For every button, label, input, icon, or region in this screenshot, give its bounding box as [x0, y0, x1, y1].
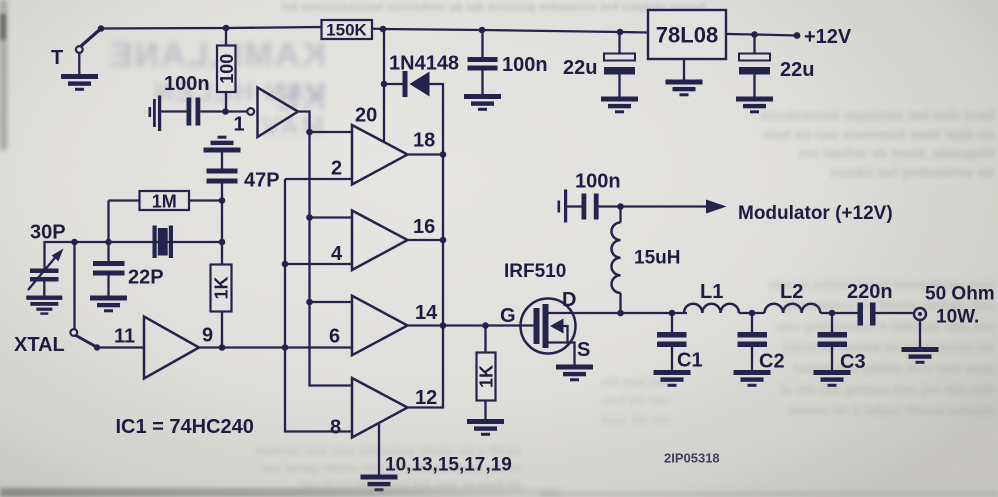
svg-text:S: S	[577, 339, 590, 361]
svg-text:IRF510: IRF510	[504, 261, 566, 282]
wire 1M left branch	[107, 201, 109, 243]
wire choke top lead	[619, 207, 621, 223]
ghost center lower small block	[520, 372, 670, 429]
op-amp U1a enable gate triangle (IC1 pin 1)	[258, 88, 299, 138]
inductor L2 coil	[765, 304, 821, 313]
wire switch to tank row	[73, 242, 75, 329]
node 1 junction dot	[222, 108, 229, 115]
ghost top edge text line	[235, 0, 705, 15]
op-amp U1a enable gate bubble	[247, 108, 254, 115]
svg-text:+12V: +12V	[804, 26, 852, 48]
wire 22u output to ground	[753, 75, 755, 97]
op-amp U1f oscillator inverter triangle (pins 11/9)	[144, 317, 199, 379]
svg-text:10,13,15,17,19: 10,13,15,17,19	[385, 455, 512, 476]
svg-text:50 Ohm: 50 Ohm	[925, 284, 995, 305]
ghost right mid paragraph	[690, 274, 994, 421]
wire buffer2 output	[408, 239, 444, 241]
output terminal circle	[914, 308, 926, 320]
wire capacitor 100n to node 1	[200, 110, 225, 112]
node enable bus to buffer3	[306, 299, 313, 306]
svg-text:22u: 22u	[563, 57, 597, 79]
svg-text:1N4148: 1N4148	[389, 53, 459, 75]
svg-text:20: 20	[355, 105, 377, 127]
node input bus buffer2	[282, 261, 289, 268]
svg-text:22P: 22P	[128, 267, 164, 289]
svg-text:C1: C1	[677, 350, 703, 372]
terminal bars modulator input	[558, 201, 561, 213]
node rail / 100n decoupling	[479, 27, 486, 34]
wire pin20 vertical	[383, 29, 385, 142]
ground under C3	[814, 370, 851, 387]
svg-text:Modulator (+12V): Modulator (+12V)	[738, 203, 893, 224]
svg-text:L1: L1	[700, 281, 723, 303]
capacitor 100n decoupling plates	[468, 57, 498, 62]
ground under switch T	[61, 74, 98, 91]
crystal X1 plates and body	[153, 226, 157, 259]
svg-text:1M: 1M	[152, 192, 177, 212]
node rail / pin20 branch	[380, 26, 387, 33]
resistor 1K oscillator	[211, 265, 232, 312]
svg-text:C2: C2	[759, 351, 785, 373]
wire enable stub buffer1	[310, 131, 353, 133]
wire 1K gate to ground	[484, 401, 486, 420]
node pin9	[219, 344, 226, 351]
wire pin14 to gate	[443, 324, 534, 326]
svg-text:L2: L2	[780, 281, 803, 303]
wire buffer3 output	[408, 324, 444, 326]
node rail / 22u output cap	[751, 31, 758, 38]
buffer U1e triangle (pins 8/12)	[352, 378, 408, 438]
wire buffer4 output to bus corner	[408, 155, 444, 408]
modulator arrowhead	[706, 200, 727, 214]
node enable bus to buffer2	[306, 214, 313, 221]
capacitor C2 plates	[738, 332, 768, 338]
capacitor 22u input electrolytic plates	[604, 54, 635, 61]
svg-text:78L08: 78L08	[656, 23, 718, 48]
svg-text:2: 2	[331, 158, 342, 180]
ground under source	[556, 365, 593, 382]
node C2	[749, 310, 756, 317]
ground under 1K gate	[467, 419, 504, 436]
svg-text:T: T	[51, 47, 63, 69]
node C1	[669, 310, 676, 317]
wire C3 top lead	[831, 313, 833, 332]
wire terminal to 100n modulator	[566, 205, 582, 207]
transistor Q1 body-source link	[564, 326, 568, 343]
ghost bottom left lines	[92, 442, 522, 493]
svg-text:1K: 1K	[477, 365, 497, 388]
svg-text:2IP05318: 2IP05318	[664, 451, 720, 466]
transistor Q1 channel bar	[543, 304, 549, 348]
svg-text:1K: 1K	[212, 276, 232, 299]
svg-text:G: G	[500, 305, 516, 327]
node tank row switch branch	[71, 239, 78, 246]
svg-text:30P: 30P	[30, 222, 66, 244]
capacitor 47P plates	[207, 169, 238, 174]
wire enable bus B	[298, 112, 352, 386]
capacitor 22P plates	[93, 261, 125, 266]
capacitor C1 plates	[657, 332, 687, 338]
wire resistor 100 to node 1	[225, 92, 227, 112]
switch XTAL contact circle	[70, 329, 77, 336]
svg-text:100n: 100n	[575, 171, 621, 193]
buffer U1b triangle (pins 2/18)	[352, 125, 408, 185]
inductor 15uH coil	[612, 223, 621, 293]
input terminal bars (key input)	[149, 107, 152, 117]
node tank row 22P/1M branch	[105, 239, 112, 246]
buffer U1d triangle (pins 6/14)	[352, 296, 408, 356]
wire pin9 output line	[222, 346, 352, 348]
capacitor 100n (key coupling) plates	[187, 98, 192, 126]
svg-text:16: 16	[413, 216, 435, 238]
regulator 78L08	[648, 10, 726, 59]
wire C2 top lead	[751, 313, 753, 332]
node output bus pin16	[440, 237, 447, 244]
diode 1N4148 triangle	[410, 72, 430, 97]
wire tank row horizontal	[45, 242, 223, 269]
wire oscillator output to node 9	[199, 346, 222, 348]
node rail / 22u input cap	[617, 29, 624, 36]
wire buffer4 hypotenuse to ground	[378, 424, 380, 475]
wire C1 to ground	[671, 347, 673, 370]
ground under output terminal	[902, 347, 939, 364]
capacitor 100n modulator plates	[582, 194, 587, 220]
capacitor 30P trimmer arrow	[28, 257, 56, 291]
switch T moving-contact dot	[98, 25, 105, 32]
capacitor 220n plates	[858, 303, 864, 326]
svg-text:10W.: 10W.	[936, 307, 979, 328]
resistor 150K (in rail)	[322, 20, 373, 39]
wire 22P branch	[107, 242, 109, 261]
capacitor 22u output electrolytic plates	[739, 54, 770, 61]
capacitor C3 plates	[818, 332, 848, 338]
wire node1 to enable gate bubble	[226, 110, 248, 112]
svg-text:1: 1	[234, 114, 245, 136]
ground under 22u input	[601, 97, 638, 114]
wire enable stub buffer2	[310, 216, 353, 218]
ghost right upper paragraph	[694, 106, 994, 182]
wire C2 to ground	[751, 347, 753, 370]
ground above 47P (inverted)	[204, 136, 241, 153]
wire diode anode lead	[384, 83, 403, 85]
wire input bus A from pin 9	[285, 179, 352, 432]
ground under 100n decoupling	[464, 94, 501, 111]
node tank row right junction	[219, 239, 226, 246]
svg-text:18: 18	[413, 130, 435, 152]
inductor L1 coil	[684, 304, 739, 313]
node modulator / choke	[617, 203, 624, 210]
wire oscillator input	[97, 346, 144, 348]
resistor 1M	[140, 191, 190, 210]
node C3	[829, 310, 836, 317]
wire rail to resistor 100	[225, 28, 227, 46]
ground under buffer4 (pins 10,13,15,17,19)	[361, 475, 398, 492]
wire L1 to C2 node	[739, 312, 765, 314]
node drain / choke	[617, 310, 624, 317]
node 1M/47P junction	[219, 197, 226, 204]
wire +12V top rail	[101, 27, 797, 36]
resistor 100	[217, 46, 236, 93]
ground under 78L08	[666, 80, 703, 97]
svg-text:15uH: 15uH	[634, 248, 680, 269]
node output bus pin18	[440, 151, 447, 158]
svg-text:8: 8	[330, 417, 341, 439]
wire L2 to 220n	[820, 312, 857, 314]
wire rail to 100n decoupling	[481, 30, 483, 57]
ground under 22P	[90, 296, 127, 313]
wire drain node to LPF	[621, 312, 688, 314]
node gate 1K pulldown	[482, 322, 489, 329]
svg-text:D: D	[562, 289, 576, 311]
svg-text:C3: C3	[840, 351, 866, 373]
node input bus pin9 line	[282, 344, 289, 351]
wire enable stub buffer3	[310, 301, 353, 303]
wire feedback vertical	[221, 153, 223, 348]
switch XTAL arm	[76, 336, 97, 348]
wire buffer1 output	[408, 153, 444, 155]
wire 220n to output terminal	[876, 312, 914, 314]
svg-text:6: 6	[329, 326, 340, 348]
wire rail to 22u input	[618, 32, 620, 54]
diode 1N4148 cathode bar	[403, 71, 408, 97]
capacitor 30P trimmer plates	[30, 269, 59, 274]
switch XTAL arm end dot	[94, 344, 100, 350]
transistor Q1 gate bar	[534, 308, 540, 344]
wire modulator arrow line	[621, 205, 707, 207]
wire C1 top lead	[671, 313, 673, 332]
ground under C1	[654, 370, 691, 387]
svg-text:100n: 100n	[502, 54, 548, 76]
terminal dot +12V	[794, 32, 801, 39]
wire 78L08 to ground	[683, 59, 685, 80]
node output bus pin14	[440, 322, 447, 329]
node enable bus to buffer1	[306, 129, 313, 136]
svg-text:IC1 = 74HC240: IC1 = 74HC240	[116, 416, 254, 438]
svg-text:100: 100	[217, 54, 237, 84]
resistor 1K gate	[477, 353, 496, 401]
wire drain	[549, 312, 621, 314]
svg-text:4: 4	[331, 243, 343, 265]
wire 22P to ground	[107, 276, 109, 296]
svg-text:150K: 150K	[326, 21, 367, 40]
wire choke bottom lead	[619, 293, 621, 313]
transistor Q1 IRF510 body circle	[521, 299, 576, 354]
wire terminal to capacitor 100n C-key	[160, 110, 187, 112]
svg-text:47P: 47P	[244, 170, 280, 192]
wire output terminal to ground	[919, 320, 921, 347]
wire diode to output bus	[430, 84, 444, 155]
ghost bleed-through headline line 1	[68, 34, 326, 119]
wire 22u input to ground	[618, 75, 620, 97]
ground under 22u output	[736, 97, 773, 114]
wire source	[549, 343, 575, 365]
wire 100n modulator to node	[599, 205, 621, 207]
wire gate node to 1K	[484, 326, 486, 353]
svg-text:22u: 22u	[780, 59, 814, 81]
wire switch T to ground	[78, 53, 80, 74]
wire C3 to ground	[831, 347, 833, 370]
switch T arm	[81, 29, 102, 47]
wire 100n decoupling to ground	[481, 71, 483, 95]
wire rail to 22u output	[753, 35, 755, 54]
wire 30P to ground	[43, 282, 45, 296]
ground under 30P	[26, 296, 62, 315]
svg-text:14: 14	[415, 302, 438, 324]
svg-text:XTAL: XTAL	[14, 334, 65, 356]
scan shadow bottom band	[0, 488, 560, 497]
svg-text:11: 11	[114, 326, 135, 348]
transistor Q1 body arrow	[550, 319, 564, 334]
svg-text:12: 12	[415, 387, 437, 409]
switch T contact circle	[76, 46, 83, 53]
svg-text:9: 9	[202, 325, 213, 347]
node at rail / resistor 100	[223, 25, 230, 32]
ghost bleed-through headline line 2	[88, 76, 324, 144]
svg-text:220n: 220n	[847, 281, 893, 303]
node diode junction	[381, 81, 388, 88]
ground under C2	[734, 370, 771, 387]
scan shadow left edge	[0, 0, 7, 150]
svg-text:100n: 100n	[164, 73, 210, 95]
wire 1M right lead	[189, 199, 222, 201]
buffer U1c triangle (pins 4/16)	[352, 211, 408, 271]
